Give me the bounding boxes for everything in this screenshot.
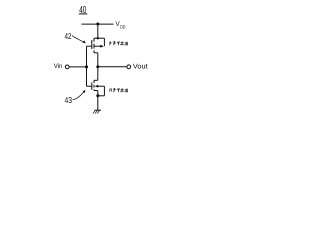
svg-text:Vout: Vout [133,64,148,71]
label 43 [65,95,73,105]
n [110,89,112,92]
transistor Q42 PMOS channel bar (dashed) [93,38,95,53]
node: VDD junction dot [96,23,99,26]
transistor Q42 PMOS bulk arrowhead (p-channel, points away) [100,45,104,48]
node: Vin open terminal [65,65,69,69]
チ [113,42,116,46]
node: Vout open terminal [127,65,131,69]
transistor Q43 NMOS bulk loop right side [103,86,105,96]
transistor Q43 NMOS gate bar [91,83,93,90]
transistor Q42 PMOS gate bar [91,40,93,49]
transistor Q43 NMOS channel bar (dashed) [93,80,95,90]
transistor Q43 NMOS source lead [94,90,98,92]
transistor Q43 NMOS drain lead [94,79,98,81]
チ [113,88,116,92]
leader arrow from 43 to NMOS gate [73,92,84,99]
transistor Q43 NMOS bulk arrowhead (n-channel, points in) [95,85,98,88]
ャ [117,42,119,45]
transistor Q42 PMOS drain lead [94,52,98,54]
wire VDD drop to PMOS source [97,24,99,38]
svg-text:43: 43 [65,95,73,105]
transistor Q43 NMOS bulk loop bottom [98,95,105,97]
wire common gate line [86,46,88,86]
wire output to Vout terminal [98,66,127,68]
p [110,42,111,46]
ground hatch 3 [97,111,99,114]
label n-channel (nチャネル) [110,88,128,92]
svg-text:Vin: Vin [54,63,63,70]
wire NMOS source to ground [97,91,99,111]
ネ [120,88,123,92]
transistor Q42 PMOS gate lead [87,45,92,47]
node: gate junction dot [85,65,88,68]
svg-text:42: 42 [65,31,72,41]
ル [125,42,128,46]
label 40 [79,5,86,16]
node: output junction dot [96,65,99,68]
ル [125,89,128,93]
transistor Q43 NMOS gate lead [87,85,92,87]
VDD label [116,21,126,30]
leader arrow from 42 to PMOS gate [72,36,83,42]
ground bar [95,109,102,111]
ground hatch 1 [93,111,95,114]
wire Vin to gate node [69,66,86,68]
transistor Q42 PMOS bulk lead [94,45,101,47]
node: PMOS source junction dot [97,37,99,39]
ャ [117,89,119,92]
VDD rail wire [82,23,114,25]
label p-channel (pチャネル) [110,41,128,45]
underline of 40 [79,13,88,15]
wire PMOS drain to output node [97,53,99,81]
transistor Q42 PMOS source lead [94,37,104,39]
svg-text:DD: DD [120,24,126,30]
ground hatch 2 [95,111,97,114]
label 42 [65,31,72,41]
node: source junction dot [96,94,99,97]
ネ [120,41,123,45]
transistor Q42 PMOS bulk loop right side [103,38,105,46]
label Vin [54,63,63,70]
transistor Q43 NMOS bulk lead [98,85,105,87]
label Vout [133,64,148,71]
